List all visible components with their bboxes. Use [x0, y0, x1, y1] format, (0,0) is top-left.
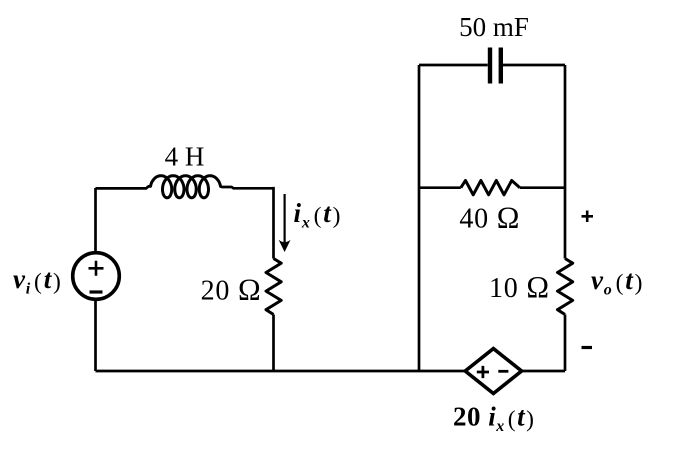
source minus sign — [90, 290, 103, 293]
wire: capacitor to top-right corner — [503, 64, 565, 67]
svg-text:vo(t): vo(t) — [591, 265, 643, 299]
svg-text:20 ix(t): 20 ix(t) — [453, 402, 534, 436]
svg-text:4 H: 4 H — [165, 142, 205, 172]
svg-text:20 Ω: 20 Ω — [201, 272, 262, 306]
wire: left rail of right network — [418, 65, 421, 371]
wire: middle wire left segment — [419, 186, 461, 189]
plus sign for v_o — [582, 211, 594, 223]
svg-text:ix(t): ix(t) — [294, 198, 342, 232]
wire: middle wire right segment — [520, 186, 565, 189]
wire: bottom wire diamond to right rail — [522, 370, 566, 373]
capacitor C 50mF right plate — [499, 48, 503, 84]
source plus sign — [89, 261, 104, 276]
svg-text:40 Ω: 40 Ω — [459, 201, 520, 235]
wire: left rail of source loop — [94, 188, 97, 371]
svg-text:vi(t): vi(t) — [13, 264, 62, 298]
voltage source Vi circle — [73, 253, 120, 300]
wire: top wire left loop (source to inductor) — [96, 186, 152, 188]
wire: right rail upper segment — [564, 65, 567, 259]
svg-text:50 mF: 50 mF — [459, 12, 529, 42]
dependent source diamond 20ix — [465, 349, 521, 394]
wire: right rail lower segment — [564, 315, 567, 372]
wire: right rail lower segment of left loop — [272, 315, 275, 372]
inductor L1 4H coil — [151, 176, 221, 198]
svg-text:10 Ω: 10 Ω — [489, 270, 550, 304]
resistor R 20ohm zigzag — [266, 259, 281, 315]
wire: inductor right lead to corner — [220, 186, 274, 188]
resistor R 40ohm zigzag — [461, 181, 520, 195]
minus sign for v_o — [582, 346, 593, 349]
current arrow i_x(t) — [284, 194, 286, 245]
diamond plus sign — [477, 366, 489, 378]
wire: right rail upper segment of left loop — [272, 187, 275, 259]
capacitor C 50mF left plate — [488, 48, 492, 84]
resistor R 10ohm zigzag — [558, 259, 573, 315]
diamond minus sign — [498, 370, 508, 373]
wire: top wire to capacitor — [419, 64, 488, 67]
wire: bottom wire from source loop to diamond — [96, 370, 466, 373]
